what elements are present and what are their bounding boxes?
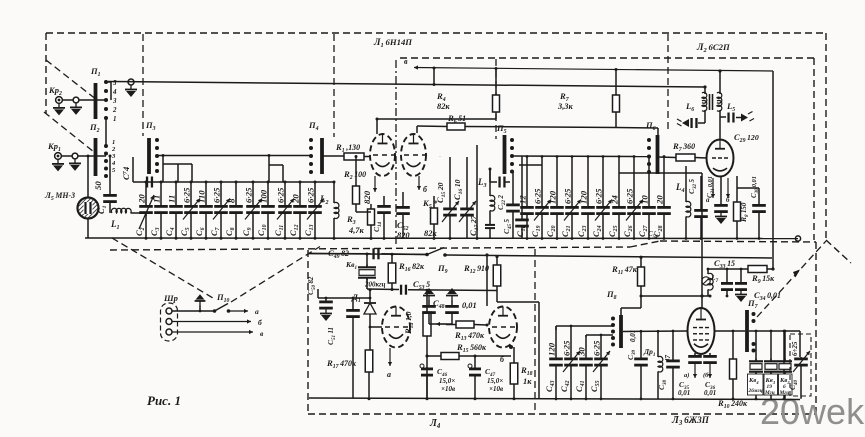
svg-text:3,3к: 3,3к	[557, 102, 573, 111]
choke Dr1	[657, 331, 659, 357]
svg-text:5: 5	[113, 79, 117, 87]
svg-text:б: б	[423, 185, 428, 194]
capacitor C50	[325, 298, 327, 301]
wire band jog right	[519, 164, 542, 166]
dashed section divider P5	[495, 59, 497, 139]
ground cap pair C48	[428, 296, 430, 301]
quartz Kv2	[784, 331, 786, 362]
capacitor C10 100	[267, 182, 269, 205]
svg-text:R14 1,0: R14 1,0	[404, 311, 415, 335]
wire contact1 down	[105, 118, 107, 146]
capacitor C2 20	[145, 182, 147, 205]
wire tube2 top	[486, 255, 488, 306]
svg-text:C13: C13	[303, 224, 315, 236]
wire transformer top	[719, 71, 721, 93]
dashed border right part	[660, 241, 816, 242]
bank C43 C42 C41 C55 taps	[556, 325, 613, 327]
capacitor C22	[512, 172, 514, 186]
wire R12 bottom	[497, 301, 539, 303]
wire grid B top	[417, 125, 447, 128]
svg-text:б: б	[258, 318, 262, 327]
dashed bottom box right	[815, 242, 817, 414]
svg-text:C7: C7	[209, 226, 221, 236]
svg-text:Кв1: Кв1	[345, 260, 357, 271]
capacitor C8 8	[235, 182, 237, 205]
antenna jack Kr1	[55, 153, 62, 160]
wire diode to grid	[370, 326, 382, 328]
tube L4 triode A	[382, 307, 410, 348]
wire x477	[476, 145, 478, 238]
svg-text:(б: (б	[703, 372, 709, 379]
capacitor C29 120	[720, 116, 726, 118]
svg-text:С⁷4: С⁷4	[121, 166, 131, 180]
capacitor C25 24	[618, 157, 620, 207]
resistor R17	[369, 327, 371, 350]
svg-text:11: 11	[167, 195, 177, 203]
capacitor C6 110	[205, 182, 207, 205]
svg-text:L1: L1	[110, 219, 120, 231]
svg-text:1: 1	[112, 139, 115, 146]
capacitor C7 6·25	[220, 182, 222, 205]
svg-text:82к: 82к	[437, 102, 450, 111]
coil L2	[333, 182, 335, 203]
svg-text:20: 20	[655, 195, 665, 205]
wire Kr1 to P2	[97, 155, 106, 157]
tube L2	[707, 140, 734, 177]
capacitor C24 6·25	[602, 157, 604, 207]
svg-text:R15 560к: R15 560к	[456, 342, 487, 354]
svg-text:П6: П6	[645, 120, 656, 132]
svg-text:3: 3	[112, 97, 117, 105]
capacitor C7a	[146, 177, 148, 188]
IF transformer	[702, 92, 707, 103]
svg-text:C41: C41	[574, 380, 586, 392]
svg-text:Мгц: Мгц	[764, 390, 775, 396]
svg-text:C45 5: C45 5	[502, 219, 513, 234]
svg-text:5: 5	[112, 167, 116, 174]
svg-text:C22 2: C22 2	[496, 195, 507, 210]
svg-text:6·25: 6·25	[212, 187, 222, 203]
capacitor C12 20	[299, 182, 301, 205]
svg-text:C33 15: C33 15	[714, 258, 735, 270]
svg-text:1: 1	[113, 115, 117, 123]
cathode arrow a	[389, 348, 391, 366]
resistor R4	[495, 68, 497, 95]
wire plate node line	[641, 295, 710, 297]
svg-text:0,01: 0,01	[462, 301, 477, 310]
socket circle 2	[72, 153, 78, 159]
diode D1	[369, 290, 371, 302]
wire y173 to tube	[649, 172, 702, 174]
capacitor C3 11	[160, 182, 162, 205]
wire P5 P6 bus	[512, 155, 649, 158]
svg-text:L2: L2	[319, 194, 329, 206]
switch P6 bar	[656, 135, 660, 174]
quartz Kv2 label	[779, 374, 793, 395]
svg-text:R9 15к: R9 15к	[751, 273, 775, 285]
svg-text:12: 12	[518, 195, 528, 204]
resistor R2	[355, 157, 357, 187]
capacitor C9 6·25	[252, 182, 254, 205]
svg-text:Л2 6С2П: Л2 6С2П	[696, 42, 730, 54]
wire lamp top	[87, 156, 89, 198]
wire R2 R3 join	[356, 211, 371, 213]
resistor R8	[736, 176, 738, 202]
ground under Kr2	[58, 103, 60, 108]
capacitor C53	[400, 285, 402, 295]
svg-text:3: 3	[111, 153, 116, 160]
svg-text:6·25: 6·25	[562, 340, 572, 356]
svg-text:6·25: 6·25	[182, 187, 192, 203]
switch P1 contacts	[104, 80, 108, 84]
connector Shr	[161, 303, 178, 341]
switch P6 contacts	[647, 138, 651, 142]
svg-text:C34 0,01: C34 0,01	[754, 290, 781, 302]
dashed outer border top	[46, 32, 826, 34]
svg-text:C51 11: C51 11	[326, 327, 337, 345]
svg-text:Кр2: Кр2	[48, 85, 62, 97]
svg-text:R13 470к: R13 470к	[454, 330, 485, 342]
dashed outer border corner	[826, 240, 851, 263]
capacitor C4 11	[175, 182, 177, 205]
svg-text:Кр1: Кр1	[47, 141, 61, 153]
svg-text:П10: П10	[216, 292, 230, 304]
resistor R9	[748, 266, 767, 273]
svg-text:15,0×: 15,0×	[487, 377, 503, 385]
svg-text:Л3 6Ж3П: Л3 6Ж3П	[671, 415, 710, 427]
dashed pointer from P10	[231, 247, 320, 303]
svg-text:6·25: 6·25	[592, 340, 602, 356]
capacitor C41 30	[585, 335, 587, 358]
svg-text:C42: C42	[559, 380, 571, 392]
svg-text:R11 47к: R11 47к	[611, 264, 638, 276]
svg-text:26мгц: 26мгц	[748, 388, 763, 394]
svg-text:R1 ,130: R1 ,130	[335, 142, 360, 154]
switch P8 contacts	[611, 317, 615, 321]
switch P7 bar	[745, 310, 749, 352]
svg-text:C24: C24	[591, 225, 603, 237]
electrolytic C46	[426, 367, 428, 368]
svg-text:П2: П2	[89, 122, 100, 134]
wire P1 contacts	[106, 81, 111, 83]
wire C7a stem	[132, 157, 134, 182]
resistor R10	[732, 331, 734, 359]
svg-text:6·25: 6·25	[563, 188, 573, 204]
wire bottom rail of box	[309, 398, 800, 400]
dashed inner border top	[400, 57, 814, 59]
ground on bus	[130, 85, 132, 90]
dashed section divider P3	[142, 34, 144, 136]
capacitor C11 6·25	[284, 182, 286, 205]
svg-text:C23: C23	[576, 225, 588, 237]
svg-text:4: 4	[111, 160, 116, 167]
svg-text:Рис. 1: Рис. 1	[147, 393, 181, 408]
capacitor C16	[466, 157, 468, 208]
capacitor C45	[521, 156, 523, 219]
svg-text:П4: П4	[308, 120, 319, 132]
trimmer C40	[800, 357, 802, 358]
socket circle	[73, 97, 79, 103]
dashed linkage P2 to P10	[112, 238, 213, 298]
capacitor C20 120	[556, 157, 558, 207]
switch P4 contacts	[309, 138, 313, 142]
svg-text:4: 4	[112, 88, 117, 96]
svg-text:C10: C10	[256, 224, 268, 236]
dashed outer border left	[45, 33, 47, 114]
svg-text:а): а)	[684, 372, 689, 379]
switch P5 contacts	[510, 138, 514, 142]
svg-text:Л5 МН-3: Л5 МН-3	[44, 190, 75, 202]
svg-text:C8: C8	[224, 227, 236, 236]
switch P1 bar	[94, 83, 98, 119]
svg-text:R16 82к: R16 82к	[398, 261, 425, 273]
svg-text:Шр: Шр	[163, 293, 178, 303]
dashed bottom box divider	[534, 249, 536, 414]
electrolytic C47	[474, 356, 476, 368]
wire grid to tube L3	[623, 330, 688, 333]
svg-text:R3: R3	[346, 214, 356, 226]
svg-text:C25: C25	[607, 225, 619, 237]
quartz Kv3	[770, 331, 772, 362]
quartz Kv3 label	[764, 374, 778, 395]
svg-text:L3: L3	[477, 177, 487, 189]
wire R6 to R7	[465, 127, 616, 128]
capacitor to ground left	[704, 120, 706, 123]
quartz Kv4 label	[748, 374, 764, 395]
dashed border jog	[630, 241, 660, 247]
wire line b	[172, 321, 251, 323]
wire P7 right line	[714, 330, 745, 332]
resistor R6	[447, 123, 465, 130]
svg-text:C9: C9	[241, 227, 253, 236]
svg-text:C32 5: C32 5	[687, 179, 698, 194]
capacitor C26 6·25	[633, 157, 635, 207]
svg-text:R12 910: R12 910	[463, 263, 489, 275]
svg-text:а: а	[255, 307, 259, 316]
svg-text:Л4: Л4	[429, 418, 441, 430]
dashed outer border right	[825, 33, 827, 240]
capacitor C18 12	[526, 157, 528, 207]
svg-text:C11: C11	[273, 225, 285, 236]
svg-text:а: а	[387, 370, 391, 379]
switch P2 bar	[94, 138, 98, 176]
dashed inner border right	[813, 58, 815, 240]
capacitor C17	[489, 222, 491, 224]
svg-text:30: 30	[577, 347, 587, 357]
capacitor C21 6·25	[571, 157, 573, 207]
svg-text:6·25: 6·25	[244, 187, 254, 203]
trimmer C40 dashed box	[790, 334, 811, 396]
svg-text:П5: П5	[496, 123, 507, 135]
svg-text:C50 82: C50 82	[306, 276, 317, 295]
resistor R3	[370, 204, 372, 209]
svg-text:×10в: ×10в	[489, 385, 503, 393]
IF trimmer caps	[726, 269, 728, 283]
coupling capacitor	[489, 169, 491, 182]
wire band taps b	[268, 156, 270, 183]
svg-text:C26: C26	[622, 225, 634, 237]
capacitor C43 120	[555, 326, 557, 358]
svg-text:120: 120	[579, 190, 589, 204]
svg-text:C6: C6	[194, 227, 206, 236]
resistor R1	[322, 155, 344, 157]
svg-text:0,01: 0,01	[704, 389, 716, 397]
wire tube L3 plate	[701, 296, 703, 308]
switch P5 bar	[503, 135, 507, 174]
coil L7	[707, 269, 709, 274]
tube L1 triode B	[401, 134, 426, 176]
svg-text:C16 10: C16 10	[453, 179, 464, 200]
capacitor C19 6·25	[541, 157, 543, 207]
svg-text:C55: C55	[589, 380, 601, 392]
capacitor C39	[640, 331, 642, 358]
dashed section divider P4	[333, 34, 335, 137]
tube L2 cathode parts	[700, 176, 702, 210]
svg-text:200кгц: 200кгц	[364, 281, 386, 289]
resistor R7a	[615, 69, 617, 95]
arrow a down	[712, 178, 714, 198]
svg-text:П1: П1	[90, 66, 101, 78]
svg-text:120: 120	[547, 342, 557, 356]
svg-text:в: в	[260, 329, 264, 338]
svg-text:8: 8	[227, 198, 237, 203]
switch P3 contacts	[155, 138, 159, 142]
capacitor C14 820	[383, 196, 385, 205]
arrow b down	[727, 178, 729, 198]
svg-text:×10в: ×10в	[441, 385, 455, 393]
svg-text:в: в	[404, 57, 408, 66]
svg-text:R2 100: R2 100	[343, 169, 366, 181]
svg-text:L5: L5	[726, 101, 735, 113]
wire bus junction	[104, 80, 107, 83]
dashed bottom box left	[307, 250, 309, 414]
wire bottom rail	[85, 237, 798, 240]
capacitor C13 6·25	[314, 182, 316, 205]
svg-text:C48: C48	[433, 298, 445, 310]
svg-text:П3: П3	[145, 120, 156, 132]
capacitor C51	[352, 298, 354, 310]
svg-text:Л1 6Н14П: Л1 6Н14П	[373, 37, 412, 49]
svg-text:R18: R18	[520, 365, 533, 377]
capacitor C28 20	[663, 157, 665, 207]
svg-text:0,01: 0,01	[629, 330, 637, 342]
svg-text:C17 27: C17 27	[469, 214, 480, 236]
antenna jack Kr2	[56, 97, 63, 104]
grounded tap circle	[128, 79, 134, 85]
resistor R7 360	[658, 156, 676, 159]
capacitor C55 6·25	[600, 335, 602, 358]
svg-text:C20: C20	[545, 225, 557, 237]
wire grid line y289	[367, 288, 399, 291]
wire band top rail	[133, 181, 334, 183]
dashed border between boxes	[110, 247, 630, 250]
capacitor C49	[372, 248, 374, 259]
capacitor C1	[109, 156, 111, 195]
svg-text:2: 2	[111, 146, 116, 153]
wire P3 bus	[157, 155, 311, 157]
capacitor C5 6·25	[190, 182, 192, 205]
svg-text:6·25: 6·25	[533, 188, 543, 204]
switch P3 bar	[147, 138, 151, 174]
svg-text:20wek: 20wek	[760, 391, 865, 432]
svg-text:6·25: 6·25	[625, 188, 635, 204]
svg-text:R7 360: R7 360	[672, 141, 695, 153]
svg-text:82к: 82к	[424, 229, 437, 238]
svg-text:6·25: 6·25	[276, 187, 286, 203]
dashed section divider P6	[667, 34, 669, 133]
svg-text:C43: C43	[544, 380, 556, 392]
svg-text:C3: C3	[149, 227, 161, 236]
svg-text:50: 50	[93, 181, 103, 190]
wire lamp bottom	[87, 219, 89, 239]
svg-text:Др1: Др1	[643, 347, 656, 358]
terminal circle on rail	[795, 236, 800, 241]
ground under socket 2	[74, 159, 76, 164]
svg-text:C5: C5	[179, 227, 191, 236]
svg-text:C21: C21	[560, 225, 572, 237]
quartz Kv4	[755, 331, 757, 362]
capacitor C23 120	[587, 157, 589, 207]
svg-text:10: 10	[640, 195, 650, 204]
svg-text:20: 20	[137, 194, 147, 204]
cathode arrow A	[374, 176, 376, 192]
dashed bottom box bottom	[308, 413, 816, 415]
ground under socket	[75, 103, 77, 108]
svg-text:П9: П9	[437, 263, 448, 275]
svg-text:100: 100	[259, 189, 269, 203]
svg-text:6·25: 6·25	[594, 188, 604, 204]
coil L4	[685, 166, 687, 202]
dashed linkage to switch P1	[46, 60, 97, 100]
dashed pointer from P7	[757, 241, 826, 317]
wire anode A top	[376, 119, 378, 134]
svg-text:П8: П8	[606, 289, 617, 301]
tube L4 triode B	[489, 307, 517, 348]
resistor R11	[640, 257, 642, 267]
svg-text:820: 820	[362, 190, 372, 204]
switch P2 contacts	[104, 144, 108, 148]
capacitor C30	[758, 188, 760, 205]
svg-text:L4: L4	[675, 182, 685, 194]
capacitor C31	[720, 176, 722, 205]
switch P8 bar	[619, 315, 623, 348]
wire plate supply	[414, 68, 773, 72]
switch P7 contacts	[752, 312, 756, 316]
svg-text:C19: C19	[530, 225, 542, 237]
wire band taps a	[162, 156, 164, 183]
wire mid bus stub	[439, 156, 441, 158]
svg-text:6÷25: 6÷25	[791, 341, 799, 356]
tube L3	[688, 308, 715, 354]
svg-text:2: 2	[112, 106, 117, 114]
svg-text:4,7к: 4,7к	[348, 226, 364, 235]
coil L1	[111, 208, 131, 213]
resistor R18	[513, 347, 515, 363]
svg-text:11: 11	[152, 195, 162, 203]
wire transformer bottoms	[704, 110, 706, 120]
svg-text:24: 24	[610, 195, 620, 205]
quartz Kv1	[366, 254, 368, 267]
svg-text:C12: C12	[288, 224, 300, 236]
potentiometer R14	[426, 290, 428, 312]
svg-text:20: 20	[291, 194, 301, 204]
resistor R12	[496, 256, 498, 265]
arrow b tube B	[418, 176, 420, 190]
svg-text:6·25: 6·25	[306, 187, 316, 203]
capacitor C42 6·25	[570, 326, 572, 358]
svg-text:C2: C2	[134, 227, 146, 236]
resistor R13	[446, 324, 456, 326]
